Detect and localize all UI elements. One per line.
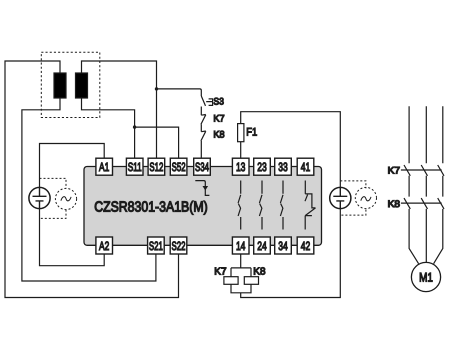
svg-text:41: 41: [301, 160, 311, 174]
terminal 33: [275, 158, 292, 175]
terminal S21: [148, 237, 165, 254]
svg-text:S3: S3: [213, 96, 224, 107]
wire: left supply to A2: [40, 209, 105, 266]
terminal S11: [126, 158, 143, 175]
terminal 13: [232, 158, 249, 175]
NO contact 33-34: [280, 181, 283, 230]
relay coil K8: [244, 277, 258, 285]
wire: K7 to K8 contact: [200, 124, 202, 131]
wire: e-stop contact 1 bottom to S21: [22, 98, 156, 281]
wire: 14 down to coil split: [231, 254, 251, 277]
wire: phase L2: [425, 106, 427, 262]
svg-text:K8: K8: [253, 267, 266, 278]
svg-text:14: 14: [236, 239, 246, 253]
wire: K8 to S34: [200, 141, 202, 158]
svg-text:F1: F1: [246, 126, 257, 138]
terminal S12: [148, 158, 165, 175]
terminal 41: [297, 158, 314, 175]
svg-text:23: 23: [257, 160, 267, 174]
terminal S52: [170, 158, 187, 175]
terminal S34: [194, 158, 211, 175]
left AC supply alternative (dashed): [40, 178, 67, 218]
node: junction S11/S52: [133, 125, 136, 128]
terminal 14: [232, 237, 249, 254]
svg-text:K7: K7: [388, 165, 400, 176]
wire: junction to S52: [135, 127, 179, 158]
terminal 42: [297, 237, 314, 254]
relay coil K7: [224, 277, 238, 285]
svg-text:S22: S22: [172, 239, 186, 253]
switch S3 (NC, manual operator): [201, 96, 212, 106]
svg-text:K8: K8: [213, 130, 224, 141]
svg-text:24: 24: [257, 239, 267, 253]
node: junction S12 branch: [155, 87, 158, 90]
fuse F1: [238, 124, 244, 142]
wire: phase L1: [409, 106, 419, 263]
right AC supply alternative (dashed): [340, 181, 366, 215]
svg-text:13: 13: [236, 160, 246, 174]
contact K7 (NC feedback): [201, 115, 206, 125]
trigger input symbol (under S34): [195, 181, 209, 196]
svg-text:K8: K8: [388, 199, 400, 210]
wire: 13 to fuse F1 and top rail to right supply: [241, 112, 341, 188]
wire: S3 to K7 contact: [200, 107, 202, 116]
svg-text:A2: A2: [99, 239, 110, 253]
terminal A1: [96, 158, 113, 175]
svg-text:K7: K7: [214, 267, 227, 278]
contact K8 (NC feedback): [201, 131, 206, 141]
svg-text:S21: S21: [149, 239, 163, 253]
terminal 34: [275, 237, 292, 254]
svg-text:34: 34: [278, 239, 288, 253]
terminal A2: [96, 237, 113, 254]
NC contact 41-42: [305, 181, 316, 230]
wire: right supply bottom to coil return: [241, 209, 341, 298]
e-stop contact block 2: [76, 73, 88, 98]
safety relay body CZSR8301-3A1B(M): [84, 167, 322, 246]
wire: junction to S3 chain: [157, 89, 202, 96]
svg-text:S52: S52: [172, 160, 186, 174]
terminal 23: [254, 158, 271, 175]
svg-text:A1: A1: [99, 160, 110, 174]
svg-text:K7: K7: [213, 113, 224, 124]
wire: phase L3: [434, 106, 443, 263]
terminal S22: [170, 237, 187, 254]
NO contact 23-24: [259, 181, 262, 230]
wire: left supply to A1: [40, 144, 105, 188]
svg-text:M1: M1: [419, 271, 433, 285]
wire: e-stop contact 2 bottom to S11: [82, 61, 157, 158]
svg-text:CZSR8301-3A1B(M): CZSR8301-3A1B(M): [94, 199, 208, 215]
wire: left outer rail from e-stop contact 1 top to S22: [5, 61, 179, 298]
wire: e-stop contact 2 top to S12: [82, 98, 135, 158]
contactor contacts K8 (power, 3-pole): [401, 198, 444, 209]
e-stop contact block 1: [54, 73, 66, 98]
wire: coils join: [231, 284, 251, 293]
NO contact 13-14: [238, 181, 241, 230]
svg-text:42: 42: [301, 239, 311, 253]
left DC supply source: [29, 187, 50, 208]
svg-text:33: 33: [278, 160, 288, 174]
svg-text:S11: S11: [128, 160, 142, 174]
right DC supply source: [330, 187, 351, 208]
svg-text:S34: S34: [195, 160, 209, 174]
emergency stop actuator dashed box: [41, 52, 100, 117]
svg-text:S12: S12: [149, 160, 163, 174]
terminal 24: [254, 237, 271, 254]
contactor contacts K7 (power, 3-pole): [401, 165, 444, 176]
motor M1: [411, 262, 440, 291]
